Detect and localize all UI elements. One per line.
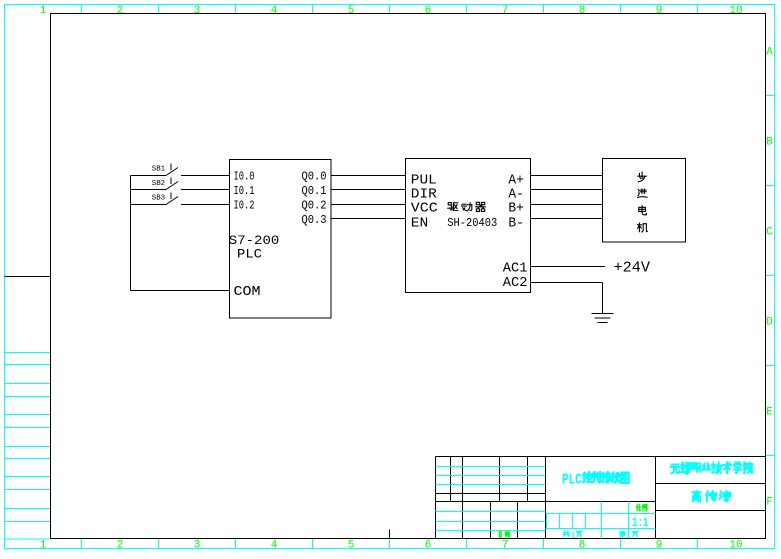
svg-text:8: 8 xyxy=(579,5,586,17)
svg-text:3: 3 xyxy=(194,539,201,551)
svg-text:SB1: SB1 xyxy=(152,166,165,174)
svg-text:9: 9 xyxy=(656,539,663,551)
svg-text:2: 2 xyxy=(117,5,124,17)
svg-text:8: 8 xyxy=(579,539,586,551)
svg-text:PLC: PLC xyxy=(237,247,262,262)
svg-text:9: 9 xyxy=(656,5,663,17)
svg-text:+24V: +24V xyxy=(614,260,651,277)
svg-text:2: 2 xyxy=(117,539,124,551)
svg-text:I0.0: I0.0 xyxy=(234,170,255,184)
svg-text:10: 10 xyxy=(729,539,742,551)
svg-text:6: 6 xyxy=(425,5,432,17)
svg-text:VCC: VCC xyxy=(411,201,438,217)
svg-text:C: C xyxy=(766,227,773,239)
svg-text:B+: B+ xyxy=(508,201,524,217)
svg-text:7: 7 xyxy=(502,5,509,17)
svg-text:PLC: PLC xyxy=(562,472,582,489)
svg-text:Q0.0: Q0.0 xyxy=(302,170,327,184)
svg-text:I0.2: I0.2 xyxy=(234,199,255,213)
svg-text:I0.1: I0.1 xyxy=(234,184,255,198)
svg-text:SH-20403: SH-20403 xyxy=(447,217,497,230)
svg-text:10: 10 xyxy=(729,5,742,17)
svg-text:F: F xyxy=(766,497,773,509)
svg-text:Q0.2: Q0.2 xyxy=(302,199,327,213)
svg-text:1:1: 1:1 xyxy=(632,516,649,530)
svg-text:1: 1 xyxy=(40,539,47,551)
svg-text:3: 3 xyxy=(194,5,201,17)
svg-text:COM: COM xyxy=(234,284,261,300)
svg-text:4: 4 xyxy=(271,5,278,17)
svg-text:4: 4 xyxy=(271,539,278,551)
svg-text:1: 1 xyxy=(40,5,47,17)
svg-text:AC2: AC2 xyxy=(503,275,528,291)
svg-text:B: B xyxy=(766,137,773,149)
svg-text:B-: B- xyxy=(508,215,524,231)
svg-text:1: 1 xyxy=(571,531,576,541)
svg-text:SB2: SB2 xyxy=(152,180,165,188)
svg-text:6: 6 xyxy=(425,539,432,551)
svg-text:A: A xyxy=(766,47,773,59)
svg-text:SB3: SB3 xyxy=(152,195,165,203)
svg-text:AC1: AC1 xyxy=(503,261,528,277)
svg-text:5: 5 xyxy=(348,539,355,551)
svg-text:Q0.1: Q0.1 xyxy=(302,184,327,198)
svg-text:1: 1 xyxy=(626,532,631,541)
svg-text:7: 7 xyxy=(502,539,509,551)
svg-text:E: E xyxy=(766,407,773,419)
svg-text:D: D xyxy=(766,317,773,329)
svg-text:Q0.3: Q0.3 xyxy=(302,213,327,227)
svg-text:5: 5 xyxy=(348,5,355,17)
svg-text:EN: EN xyxy=(411,215,429,231)
